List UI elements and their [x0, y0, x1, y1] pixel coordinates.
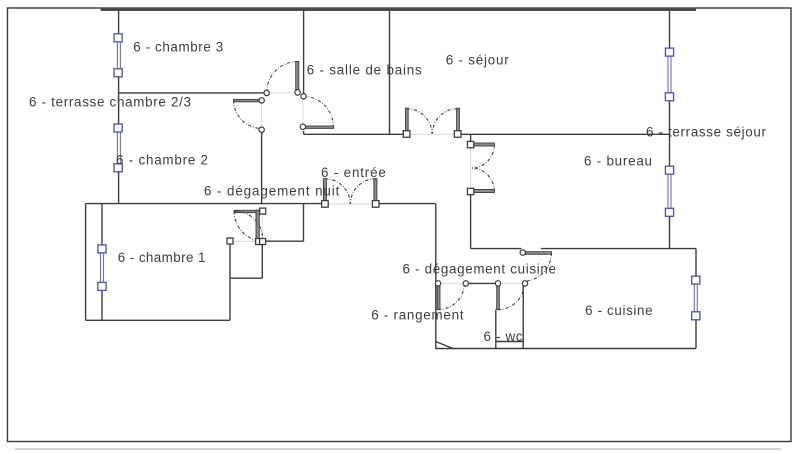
svg-text:6 - cuisine: 6 - cuisine: [585, 303, 653, 318]
svg-text:6 - séjour: 6 - séjour: [446, 52, 510, 67]
svg-text:6 - dégagement nuit: 6 - dégagement nuit: [204, 184, 340, 199]
svg-text:6 - entrée: 6 - entrée: [321, 165, 386, 180]
svg-text:6 - wc: 6 - wc: [484, 329, 523, 344]
svg-text:6 - terrasse séjour: 6 - terrasse séjour: [646, 125, 767, 140]
svg-text:6 - dégagement cuisine: 6 - dégagement cuisine: [403, 262, 557, 277]
svg-text:6 - chambre 2: 6 - chambre 2: [116, 153, 208, 168]
svg-text:6 - chambre 3: 6 - chambre 3: [133, 40, 223, 55]
svg-text:6 - terrasse chambre 2/3: 6 - terrasse chambre 2/3: [29, 95, 191, 110]
svg-text:6 - salle de bains: 6 - salle de bains: [307, 63, 422, 78]
svg-text:6 - chambre 1: 6 - chambre 1: [118, 250, 206, 265]
svg-text:6 - bureau: 6 - bureau: [584, 154, 652, 169]
svg-text:6 - rangement: 6 - rangement: [371, 308, 464, 323]
